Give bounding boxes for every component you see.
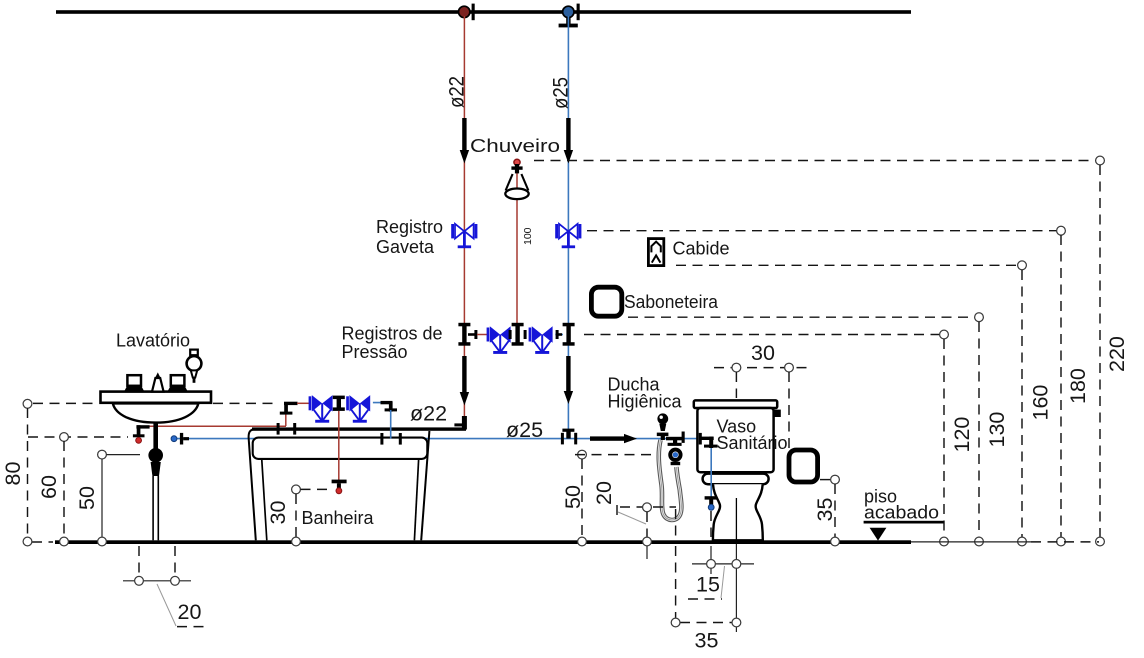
center tee fitting (tub spout drop) xyxy=(333,396,345,411)
label Ducha Higienica xyxy=(608,375,683,412)
flow arrow down on cold riser (lower) xyxy=(564,356,573,404)
dim 20 (lavatory points spacing, below floor) xyxy=(123,546,206,627)
pressure valve (hot, tub) xyxy=(309,395,333,423)
dim 35 (paper holder height) xyxy=(813,475,839,546)
label piso acabado xyxy=(864,487,944,524)
dashed dim line 130 (saboneteira height) xyxy=(628,313,1009,546)
tee fitting on hot riser at mixer bar xyxy=(458,323,477,346)
cabide icon xyxy=(648,239,663,266)
cold stub wire from mixer valve xyxy=(555,334,563,336)
svg-text:35: 35 xyxy=(813,498,837,522)
dim 35 (toilet center offset, below floor) xyxy=(671,509,741,653)
union tick right of hot node xyxy=(472,4,475,21)
svg-text:ø25: ø25 xyxy=(549,77,573,109)
svg-text:ø22: ø22 xyxy=(410,402,447,426)
svg-text:60: 60 xyxy=(37,475,61,499)
lavatory counter xyxy=(101,392,212,403)
label Cabide xyxy=(673,239,730,259)
svg-text:50: 50 xyxy=(561,485,585,509)
floor slab line xyxy=(32,540,1099,544)
lavatory hot water point xyxy=(133,425,150,443)
hot water wire lavatory-to-tub xyxy=(149,425,286,427)
svg-text:Chuveiro: Chuveiro xyxy=(470,136,560,156)
lavatory right tap xyxy=(167,375,187,391)
svg-text:120: 120 xyxy=(950,417,974,453)
toilet tank lid xyxy=(694,400,777,408)
bathtub walls xyxy=(249,429,430,540)
svg-text:Higiênica: Higiênica xyxy=(608,392,683,412)
soap dispenser icon xyxy=(187,350,202,383)
svg-text:20: 20 xyxy=(592,481,616,505)
dashed dim line 160 (cabide height) xyxy=(676,261,1053,546)
svg-text:50: 50 xyxy=(75,486,99,510)
flow arrow down on hot riser (top) xyxy=(460,118,469,164)
svg-text:ø25: ø25 xyxy=(506,418,543,442)
svg-text:160: 160 xyxy=(1029,385,1053,421)
dim 60 (supply height) xyxy=(28,433,128,546)
label Banheira xyxy=(302,508,375,528)
ducha tee on o25 line xyxy=(666,432,685,446)
ducha hose xyxy=(659,440,682,520)
bathtub rim / o22 pipe run xyxy=(252,427,466,430)
svg-text:Banheira: Banheira xyxy=(302,508,375,528)
svg-text:acabado: acabado xyxy=(864,503,939,523)
dim 50 (ducha height) xyxy=(561,450,657,546)
svg-text:30: 30 xyxy=(751,341,775,365)
union ticks where cold drop meets o25 line xyxy=(380,433,401,445)
label Registros de Pressao xyxy=(342,324,443,363)
svg-text:Lavatório: Lavatório xyxy=(116,331,190,351)
label o22 (tub run) xyxy=(410,402,447,426)
svg-text:100: 100 xyxy=(522,227,534,245)
label Registro Gaveta xyxy=(376,217,443,257)
dim 30 (tub spout height) xyxy=(266,485,330,546)
pressure valve (cold, shower mixer) xyxy=(529,326,553,354)
paper holder icon xyxy=(789,450,818,482)
svg-text:220: 220 xyxy=(1105,336,1129,372)
hot riser wire o22 xyxy=(463,16,465,420)
ducha hand shower knob xyxy=(657,413,669,440)
center tee fitting (shower drop) xyxy=(509,323,527,346)
svg-text:20: 20 xyxy=(178,600,202,624)
dim 30 (toilet offset, top) xyxy=(714,341,808,448)
hot stub wire to mixer valve xyxy=(477,334,489,336)
gate valve on hot riser xyxy=(451,224,477,248)
tub hot elbow up xyxy=(280,402,298,426)
svg-text:Sanitário: Sanitário xyxy=(717,433,788,453)
label 100 (shower drop) xyxy=(522,227,534,245)
svg-text:Saboneteira: Saboneteira xyxy=(624,292,719,312)
dashed dim line 120 (mixer height) xyxy=(584,330,974,546)
label o25 (riser) xyxy=(549,77,573,109)
top water main (barrilete) xyxy=(56,10,911,14)
svg-text:15: 15 xyxy=(696,573,720,597)
lavatory drain pipe and trap xyxy=(148,422,163,541)
label Vaso Sanitario xyxy=(717,417,788,454)
svg-text:Cabide: Cabide xyxy=(673,239,730,259)
gate valve on cold riser xyxy=(555,224,581,248)
svg-text:ø22: ø22 xyxy=(445,76,469,108)
lavatory spout xyxy=(152,372,164,391)
cold water take-off node on main xyxy=(559,6,578,27)
dim 20 (ducha point height) xyxy=(592,481,676,559)
label Lavatorio xyxy=(116,331,190,351)
toilet pedestal xyxy=(713,484,763,540)
lavatory bowl xyxy=(113,403,199,422)
svg-text:30: 30 xyxy=(266,501,290,525)
flow arrow down on cold riser (top) xyxy=(564,118,573,164)
label o25 (run) xyxy=(506,418,543,442)
dim 80 (counter height) xyxy=(1,399,279,545)
dashed dim line 220 (shower height) xyxy=(534,156,1129,546)
hot stub wire to tub valve xyxy=(297,402,310,404)
label o22 (riser) xyxy=(445,76,469,108)
tee fitting on cold riser at mixer bar xyxy=(556,323,575,346)
label Chuveiro xyxy=(470,136,560,156)
tub cold elbow down xyxy=(381,401,398,439)
svg-text:130: 130 xyxy=(985,412,1009,448)
flow arrow down on hot riser (lower) xyxy=(460,356,469,406)
tee fitting cold riser to o25 line xyxy=(561,429,577,445)
floor level marker triangle xyxy=(870,528,887,541)
label Saboneteira xyxy=(624,292,719,312)
svg-text:Registro: Registro xyxy=(376,217,443,237)
union tick right of cold node xyxy=(577,4,580,21)
dim 15 (toilet supply offset, below floor) xyxy=(688,511,754,632)
cold riser wire o25 xyxy=(567,16,569,436)
shower head xyxy=(505,159,528,199)
toilet seat xyxy=(703,474,769,485)
shower feed wire xyxy=(516,165,518,324)
svg-text:Pressão: Pressão xyxy=(342,342,408,362)
cold water wire o25 run xyxy=(177,438,699,440)
toilet supply piping xyxy=(699,433,718,510)
svg-text:35: 35 xyxy=(695,629,719,653)
hot riser bottom elbow xyxy=(454,416,467,430)
svg-text:80: 80 xyxy=(1,462,25,486)
flow arrow on o25 line xyxy=(590,434,637,443)
hot water take-off node on main xyxy=(459,6,470,17)
ducha control valve xyxy=(670,450,680,466)
lavatory cold water point xyxy=(171,433,189,445)
bathtub basin xyxy=(253,438,428,459)
svg-text:Gaveta: Gaveta xyxy=(376,237,435,257)
pressure valve (hot, shower mixer) xyxy=(487,326,511,354)
pressure valve (cold, tub) xyxy=(346,395,370,423)
union ticks where hot line meets tub xyxy=(277,423,297,435)
dim 50 (trap height) xyxy=(75,450,140,546)
toilet tank xyxy=(697,408,773,472)
tub spout xyxy=(332,480,347,494)
svg-text:Registros de: Registros de xyxy=(342,324,443,344)
tub spout drop wire xyxy=(338,411,340,486)
cold stub wire from tub valve xyxy=(373,402,391,404)
toilet flush button xyxy=(774,410,781,417)
lavatory left tap xyxy=(124,375,144,391)
saboneteira icon xyxy=(591,287,621,316)
svg-text:180: 180 xyxy=(1066,368,1090,404)
dashed dim line 180 (gate valve height) xyxy=(587,226,1090,546)
